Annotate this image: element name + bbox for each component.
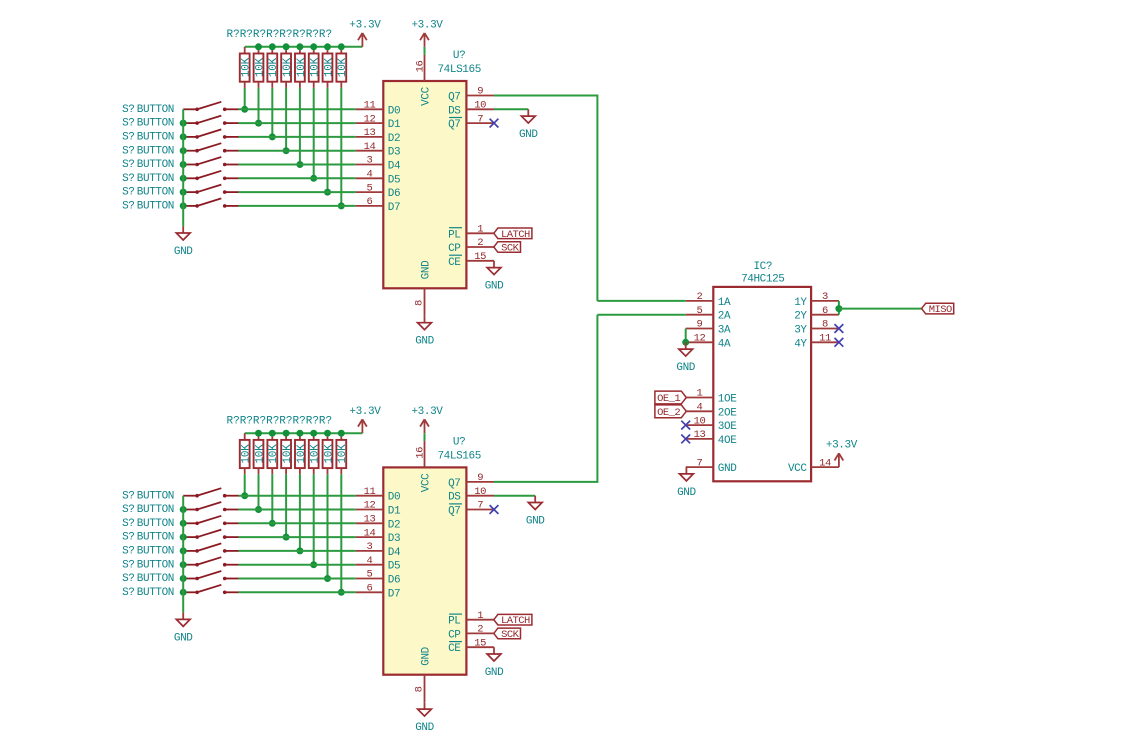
svg-text:15: 15: [474, 251, 486, 263]
no-connect X: [681, 421, 690, 430]
power +3.3V: [411, 19, 443, 46]
svg-text:Q7: Q7: [448, 92, 460, 104]
svg-text:4: 4: [367, 555, 373, 567]
svg-text:S?: S?: [122, 159, 134, 171]
svg-text:S?: S?: [122, 132, 134, 144]
svg-text:D6: D6: [388, 188, 400, 200]
wire: switch to D7 pin (section 1): [239, 205, 356, 207]
svg-text:10K: 10K: [241, 444, 253, 464]
wire: switch to D7 pin (section 2): [239, 591, 356, 593]
svg-text:BUTTON: BUTTON: [137, 187, 174, 199]
pin 9 Q7 (section 1): [448, 86, 494, 104]
junction at D2 row / resistor 3 (section 1): [269, 133, 276, 140]
wire: resistor 6 down to row D5 (section 1): [313, 88, 315, 178]
svg-text:D2: D2: [388, 519, 400, 531]
svg-text:D3: D3: [388, 533, 400, 545]
svg-text:GND: GND: [519, 129, 538, 141]
wire: resistor 2 down to row D1 (section 2): [258, 474, 260, 509]
wire: from U? #2 Q7 to 2A: [597, 314, 685, 316]
svg-text:S?: S?: [122, 518, 134, 530]
svg-text:U?: U?: [453, 437, 465, 449]
global label OE_2: [655, 405, 686, 419]
junction on button bus row 7 (section 1): [180, 202, 187, 209]
pin 12 4A: [686, 333, 731, 351]
svg-text:VCC: VCC: [788, 463, 807, 475]
wire: to MISO: [839, 308, 922, 310]
no-connect X: [681, 435, 690, 444]
ground: [174, 226, 193, 258]
svg-text:D4: D4: [388, 547, 401, 559]
svg-text:GND: GND: [526, 515, 545, 527]
junction on top bus at resistor 3 (section 1): [269, 43, 276, 50]
svg-text:11: 11: [364, 486, 376, 498]
wire: switch to D4 pin (section 2): [239, 550, 356, 552]
switch S? push-button (section 2, row 2): [183, 516, 238, 525]
wire: resistor 6 down to row D5 (section 2): [313, 474, 315, 564]
svg-text:12: 12: [364, 113, 376, 125]
pin 9 3A: [686, 319, 731, 337]
resistor R? 10K (section 1, column 1): [240, 47, 253, 88]
resistor R? 10K (section 1, column 4): [281, 47, 294, 88]
svg-text:GND: GND: [485, 281, 504, 293]
svg-text:D1: D1: [388, 506, 401, 518]
svg-text:7: 7: [477, 500, 483, 512]
svg-text:GND: GND: [421, 646, 433, 665]
svg-text:BUTTON: BUTTON: [137, 559, 174, 571]
junction on top bus at resistor 4 (section 2): [283, 430, 290, 437]
ground: [485, 261, 504, 293]
wire: VCC to +3.3V (section 2): [424, 433, 426, 441]
wire: DS to ground (section 1): [494, 108, 528, 110]
wire: resistor 7 down to row D6 (section 1): [327, 88, 329, 192]
ground: [676, 342, 695, 374]
svg-text:74HC125: 74HC125: [741, 273, 784, 285]
pin 14 D3 (section 2): [356, 527, 401, 545]
svg-text:3: 3: [367, 541, 373, 553]
pin 10 3OE: [686, 415, 738, 433]
no-connect X: [835, 338, 844, 347]
svg-text:Q7: Q7: [448, 119, 460, 131]
svg-text:6: 6: [367, 583, 373, 595]
junction on button bus row 6 (section 2): [180, 575, 187, 582]
svg-text:BUTTON: BUTTON: [137, 573, 174, 585]
resistor R? 10K (section 1, column 7): [323, 47, 336, 88]
svg-text:14: 14: [364, 141, 376, 153]
svg-text:2OE: 2OE: [718, 407, 737, 419]
svg-text:CE: CE: [448, 257, 461, 269]
junction on button bus row 4 (section 1): [180, 161, 187, 168]
pin 7 /Q7 (section 2): [448, 500, 494, 518]
wire: DS to ground (section 2): [494, 495, 535, 497]
resistor R? 10K (section 2, column 1): [240, 433, 253, 474]
no-connect X: [490, 505, 499, 514]
svg-text:GND: GND: [677, 487, 696, 499]
wire: switch to D5 pin (section 2): [239, 564, 356, 566]
svg-text:10K: 10K: [337, 57, 349, 77]
pin 12 D1 (section 1): [356, 113, 401, 131]
svg-text:1: 1: [477, 224, 483, 236]
pin 1 1OE: [686, 388, 738, 406]
junction at D1 row / resistor 2 (section 1): [255, 120, 262, 127]
pin 15 /CE (section 2): [448, 637, 494, 655]
wire: 1Y/2Y tie: [838, 301, 840, 315]
wire: resistor 2 down to row D1 (section 1): [258, 88, 260, 123]
svg-text:14: 14: [364, 527, 376, 539]
IC IC? 74HC125 body: [713, 287, 811, 481]
pin 16 VCC top (section 1): [415, 55, 433, 106]
wire: 3A/4A tie to ground: [685, 329, 687, 343]
pin 2 CP (section 2): [448, 624, 494, 642]
junction on top bus at resistor 4 (section 1): [283, 43, 290, 50]
svg-text:10K: 10K: [254, 444, 266, 464]
svg-text:BUTTON: BUTTON: [137, 587, 174, 599]
pin 8 GND bottom (section 1): [413, 260, 432, 316]
wire: switch to D6 pin (section 1): [239, 191, 356, 193]
pin 15 /CE (section 1): [448, 251, 494, 269]
junction on top bus at resistor 2 (section 2): [255, 430, 262, 437]
svg-text:1OE: 1OE: [718, 394, 737, 406]
power +3.3V: [349, 406, 381, 433]
switch S? push-button (section 2, row 7): [183, 585, 238, 594]
switch S? push-button (section 1, row 3): [183, 143, 238, 152]
switch S? push-button (section 2, row 6): [183, 571, 238, 580]
ground: [519, 109, 538, 141]
svg-text:S?: S?: [122, 145, 134, 157]
wire: switch to D5 pin (section 1): [239, 177, 356, 179]
switch S? push-button (section 2, row 5): [183, 557, 238, 566]
svg-text:VCC: VCC: [421, 473, 433, 492]
switch S? push-button (section 2, row 4): [183, 543, 238, 552]
wire: resistor 5 down to row D4 (section 1): [299, 88, 301, 165]
svg-text:11: 11: [819, 333, 831, 345]
switch S? push-button (section 1, row 5): [183, 171, 238, 180]
svg-text:7: 7: [697, 457, 703, 469]
resistor R? 10K (section 1, column 3): [267, 47, 280, 88]
svg-text:4: 4: [697, 402, 703, 414]
junction at D0 row / resistor 1 (section 1): [241, 106, 248, 113]
junction on top bus at resistor 7 (section 1): [324, 43, 331, 50]
global label MISO: [922, 303, 954, 316]
svg-text:GND: GND: [718, 463, 737, 475]
svg-text:VCC: VCC: [421, 86, 433, 105]
svg-text:10K: 10K: [337, 444, 349, 464]
svg-text:10K: 10K: [268, 444, 280, 464]
pin 5 D6 (section 1): [356, 182, 401, 200]
junction on top bus at resistor 5 (section 2): [296, 430, 303, 437]
svg-text:D2: D2: [388, 133, 400, 145]
svg-text:10: 10: [694, 415, 706, 427]
power +3.3V: [411, 406, 443, 433]
wire: switch to D3 pin (section 2): [239, 536, 356, 538]
svg-text:GND: GND: [485, 667, 504, 679]
svg-text:PL: PL: [448, 616, 460, 628]
svg-text:12: 12: [364, 500, 376, 512]
svg-text:3: 3: [822, 291, 828, 303]
junction at D4 row / resistor 5 (section 2): [296, 547, 303, 554]
svg-text:BUTTON: BUTTON: [137, 504, 174, 516]
svg-text:10K: 10K: [296, 57, 308, 77]
svg-text:CP: CP: [448, 629, 461, 641]
svg-text:S?: S?: [122, 573, 134, 585]
svg-text:4: 4: [367, 169, 373, 181]
svg-text:2: 2: [477, 624, 483, 636]
pin 6 2Y: [794, 305, 839, 323]
junction on button bus row 6 (section 1): [180, 189, 187, 196]
svg-text:BUTTON: BUTTON: [137, 159, 174, 171]
pin 4 2OE: [686, 402, 738, 420]
wire: resistor 5 down to row D4 (section 2): [299, 474, 301, 551]
svg-text:+3.3V: +3.3V: [826, 440, 858, 452]
svg-text:Q7: Q7: [448, 478, 460, 490]
svg-text:10: 10: [474, 486, 486, 498]
junction on button bus row 4 (section 2): [180, 547, 187, 554]
wire: resistor 3 down to row D2 (section 1): [271, 88, 273, 137]
svg-text:S?: S?: [122, 504, 134, 516]
svg-text:S?: S?: [122, 532, 134, 544]
svg-text:D3: D3: [388, 147, 400, 159]
svg-text:S?: S?: [122, 201, 134, 213]
resistor R? 10K (section 2, column 8): [336, 433, 349, 474]
svg-text:14: 14: [819, 457, 831, 469]
svg-text:GND: GND: [676, 362, 695, 374]
wire: resistor 1 down to row D0 (section 2): [244, 474, 246, 495]
svg-text:3A: 3A: [718, 325, 731, 337]
wire: from U? #1 Q7 to 1A: [597, 300, 685, 302]
svg-text:SCK: SCK: [501, 629, 520, 641]
junction at D5 row / resistor 6 (section 1): [310, 175, 317, 182]
pin 8 3Y: [794, 319, 839, 337]
pin 8 GND bottom (section 2): [413, 646, 432, 702]
svg-text:GND: GND: [415, 722, 434, 734]
wire: resistor 4 down to row D3 (section 2): [285, 474, 287, 537]
pin 3 D4 (section 2): [356, 541, 401, 559]
svg-text:8: 8: [822, 319, 828, 331]
pin 5 2A: [686, 305, 731, 323]
svg-text:8: 8: [413, 686, 425, 692]
svg-text:CE: CE: [448, 643, 461, 655]
junction on top bus at resistor 6 (section 2): [310, 430, 317, 437]
svg-text:10K: 10K: [323, 444, 335, 464]
svg-text:D7: D7: [388, 588, 400, 600]
switch S? push-button (section 1, row 4): [183, 157, 238, 166]
ground: [526, 496, 545, 528]
pin 4 D5 (section 1): [356, 169, 401, 187]
junction at D7 row / resistor 8 (section 1): [338, 202, 345, 209]
power +3.3V: [349, 19, 381, 46]
svg-text:DS: DS: [448, 105, 461, 117]
svg-text:15: 15: [474, 637, 486, 649]
svg-text:BUTTON: BUTTON: [137, 546, 174, 558]
wire: resistor 3 down to row D2 (section 2): [271, 474, 273, 523]
svg-text:6: 6: [367, 196, 373, 208]
svg-text:D4: D4: [388, 161, 401, 173]
svg-text:6: 6: [822, 305, 828, 317]
wire: switch to D4 pin (section 1): [239, 164, 356, 166]
junction at D0 row / resistor 1 (section 2): [241, 492, 248, 499]
junction at D3 row / resistor 4 (section 1): [283, 147, 290, 154]
global label SCK: [494, 242, 521, 255]
junction on button bus row 7 (section 2): [180, 589, 187, 596]
pin 12 D1 (section 2): [356, 500, 401, 518]
junction on top bus at resistor 8 (section 1): [338, 43, 345, 50]
svg-text:13: 13: [364, 514, 376, 526]
junction on button bus row 5 (section 2): [180, 561, 187, 568]
wire: VCC to +3.3V (section 1): [424, 47, 426, 55]
svg-text:LATCH: LATCH: [501, 229, 530, 241]
junction at D6 row / resistor 7 (section 1): [324, 189, 331, 196]
junction at D7 row / resistor 8 (section 2): [338, 589, 345, 596]
svg-text:R?R?R?R?R?R?R?R?: R?R?R?R?R?R?R?R?: [227, 416, 333, 428]
svg-text:8: 8: [413, 300, 425, 306]
svg-text:S?: S?: [122, 173, 134, 185]
resistor R? 10K (section 1, column 2): [254, 47, 267, 88]
junction on top bus at resistor 8 (section 2): [338, 430, 345, 437]
svg-text:3Y: 3Y: [794, 325, 807, 337]
pin 6 D7 (section 1): [356, 196, 401, 214]
svg-text:1Y: 1Y: [794, 297, 807, 309]
wire: resistor 7 down to row D6 (section 2): [327, 474, 329, 578]
svg-text:5: 5: [697, 305, 703, 317]
wire: GND pin elbow: [685, 466, 687, 468]
wire: button common bus (section 1): [182, 109, 184, 226]
wire: Q7 output to 74HC125 (section 1): [494, 96, 597, 301]
pin 16 VCC top (section 2): [415, 441, 433, 492]
svg-text:BUTTON: BUTTON: [137, 490, 174, 502]
junction at D4 row / resistor 5 (section 1): [296, 161, 303, 168]
svg-text:10K: 10K: [296, 444, 308, 464]
junction at D5 row / resistor 6 (section 2): [310, 561, 317, 568]
svg-text:74LS165: 74LS165: [437, 64, 480, 76]
svg-text:BUTTON: BUTTON: [137, 132, 174, 144]
pin 1 /PL (section 1): [448, 224, 494, 242]
wire: switch to D2 pin (section 2): [239, 522, 356, 524]
junction at D1 row / resistor 2 (section 2): [255, 506, 262, 513]
svg-text:7: 7: [477, 113, 483, 125]
switch S? push-button (section 2, row 0): [183, 488, 238, 497]
svg-text:74LS165: 74LS165: [437, 450, 480, 462]
pin 11 D0 (section 1): [356, 100, 401, 118]
svg-text:3: 3: [367, 155, 373, 167]
svg-text:10K: 10K: [282, 444, 294, 464]
pin 13 D2 (section 2): [356, 514, 401, 532]
svg-text:10K: 10K: [310, 444, 322, 464]
global label LATCH: [494, 614, 532, 627]
junction on top bus at resistor 3 (section 2): [269, 430, 276, 437]
svg-text:D0: D0: [388, 105, 400, 117]
svg-text:S?: S?: [122, 187, 134, 199]
svg-text:S?: S?: [122, 104, 134, 116]
svg-text:BUTTON: BUTTON: [137, 145, 174, 157]
svg-text:D5: D5: [388, 174, 400, 186]
junction on top bus at resistor 6 (section 1): [310, 43, 317, 50]
pin 13 4OE: [686, 429, 738, 447]
resistor R? 10K (section 2, column 5): [295, 433, 308, 474]
ground: [415, 316, 434, 348]
svg-text:D7: D7: [388, 202, 400, 214]
svg-text:10K: 10K: [282, 57, 294, 77]
svg-text:2: 2: [477, 237, 483, 249]
pin 1 /PL (section 2): [448, 610, 494, 628]
switch S? push-button (section 2, row 1): [183, 502, 238, 511]
svg-text:1A: 1A: [718, 297, 731, 309]
wire: switch to D2 pin (section 1): [239, 136, 356, 138]
svg-text:+3.3V: +3.3V: [349, 19, 381, 31]
svg-text:+3.3V: +3.3V: [411, 406, 443, 418]
IC U? 74LS165 body (section 2): [383, 467, 466, 674]
svg-text:10K: 10K: [254, 57, 266, 77]
ground: [174, 613, 193, 645]
pin 2 1A: [686, 291, 731, 309]
svg-text:S?: S?: [122, 546, 134, 558]
svg-text:2A: 2A: [718, 311, 731, 323]
switch S? push-button (section 1, row 7): [183, 198, 238, 207]
svg-text:10K: 10K: [310, 57, 322, 77]
svg-text:IC?: IC?: [753, 261, 772, 273]
resistor R? 10K (section 2, column 3): [267, 433, 280, 474]
svg-text:D6: D6: [388, 575, 400, 587]
svg-text:4OE: 4OE: [718, 435, 737, 447]
svg-text:DS: DS: [448, 492, 461, 504]
svg-text:S?: S?: [122, 587, 134, 599]
svg-text:D5: D5: [388, 561, 400, 573]
pin 5 D6 (section 2): [356, 569, 401, 587]
no-connect X: [835, 324, 844, 333]
svg-text:SCK: SCK: [501, 243, 520, 255]
junction 1Y/2Y: [835, 305, 842, 312]
svg-text:R?R?R?R?R?R?R?R?: R?R?R?R?R?R?R?R?: [227, 29, 333, 41]
pin 7 /Q7 (section 1): [448, 113, 494, 131]
resistor R? 10K (section 2, column 4): [281, 433, 294, 474]
resistor R? 10K (section 1, column 6): [309, 47, 322, 88]
svg-text:LATCH: LATCH: [501, 615, 530, 627]
pin 2 CP (section 1): [448, 237, 494, 255]
resistor R? 10K (section 1, column 5): [295, 47, 308, 88]
svg-text:16: 16: [415, 447, 427, 459]
pin 4 D5 (section 2): [356, 555, 401, 573]
junction on button bus row 3 (section 1): [180, 147, 187, 154]
global label LATCH: [494, 228, 532, 241]
resistor R? 10K (section 2, column 2): [254, 433, 267, 474]
svg-text:BUTTON: BUTTON: [137, 518, 174, 530]
pin 14 D3 (section 1): [356, 141, 401, 159]
svg-text:OE_2: OE_2: [657, 407, 680, 419]
switch S? push-button (section 1, row 0): [183, 102, 238, 111]
IC U? 74LS165 body (section 1): [383, 81, 466, 288]
wire: button common bus (section 2): [182, 496, 184, 613]
junction on top bus at resistor 2 (section 1): [255, 43, 262, 50]
junction on button bus row 2 (section 1): [180, 133, 187, 140]
pin 13 D2 (section 1): [356, 127, 401, 145]
svg-text:BUTTON: BUTTON: [137, 118, 174, 130]
svg-text:S?: S?: [122, 118, 134, 130]
wire: switch to D6 pin (section 2): [239, 578, 356, 580]
pin 11 D0 (section 2): [356, 486, 401, 504]
svg-text:1: 1: [477, 610, 483, 622]
svg-text:13: 13: [364, 127, 376, 139]
svg-text:+3.3V: +3.3V: [349, 406, 381, 418]
wire: resistor 8 down to row D7 (section 1): [340, 88, 342, 206]
svg-text:9: 9: [477, 472, 483, 484]
junction on top bus at resistor 7 (section 2): [324, 430, 331, 437]
pin 14 VCC: [788, 457, 839, 475]
svg-text:MISO: MISO: [929, 304, 952, 316]
svg-text:9: 9: [697, 319, 703, 331]
svg-text:2Y: 2Y: [794, 311, 807, 323]
svg-text:BUTTON: BUTTON: [137, 201, 174, 213]
resistor R? 10K (section 2, column 6): [309, 433, 322, 474]
svg-text:Q7: Q7: [448, 506, 460, 518]
svg-text:S?: S?: [122, 559, 134, 571]
